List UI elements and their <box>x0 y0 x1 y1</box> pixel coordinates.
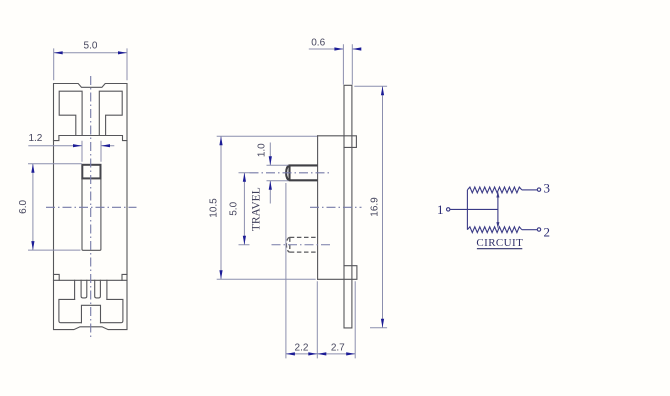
svg-text:5.0: 5.0 <box>84 41 98 52</box>
svg-text:CIRCUIT: CIRCUIT <box>476 237 523 249</box>
dimension 1.0 (pin diameter) <box>267 143 289 204</box>
terminal 1 node circle <box>447 208 450 211</box>
svg-text:1.2: 1.2 <box>28 133 42 144</box>
upper-right window cutout <box>99 91 122 135</box>
dimensions 2.2 / 2.7 (bottom) <box>286 183 355 358</box>
wire left bus <box>466 190 468 230</box>
svg-text:1.0: 1.0 <box>256 143 267 157</box>
wiper arrow up <box>496 191 499 198</box>
side body top block <box>318 136 357 148</box>
terminal 2 node circle <box>537 228 540 231</box>
svg-text:5.0: 5.0 <box>228 201 239 215</box>
dimension 10.5 (body height) <box>217 136 317 279</box>
side body left edge <box>317 136 319 279</box>
pin centerline <box>250 172 331 174</box>
svg-text:16.9: 16.9 <box>369 197 380 217</box>
phantom pin centerline <box>272 244 332 246</box>
slider slot <box>82 178 101 250</box>
side body bottom foot <box>318 266 357 280</box>
wiper arrow down <box>496 222 499 229</box>
comb slot left <box>81 280 87 298</box>
resistor R1 (top track) <box>467 187 521 193</box>
side body centerline <box>310 206 362 208</box>
svg-text:TRAVEL: TRAVEL <box>250 187 262 231</box>
svg-text:3: 3 <box>544 180 551 195</box>
dimension 1.2 (slot width) <box>28 141 114 162</box>
svg-text:10.5: 10.5 <box>208 198 219 218</box>
actuator pin (bold) <box>286 165 318 180</box>
bottom-right window <box>101 299 123 322</box>
svg-text:6.0: 6.0 <box>18 200 29 214</box>
terminal 3 node circle <box>537 188 540 191</box>
svg-text:2: 2 <box>544 224 551 239</box>
dimension 6.0 (slot length) <box>28 164 82 250</box>
comb slot right <box>95 280 101 298</box>
body outline front view <box>54 84 128 330</box>
dimension 0.6 (blade thickness) <box>309 44 361 84</box>
slider knob (bold) <box>82 165 100 179</box>
svg-text:1: 1 <box>437 202 444 217</box>
terminal comb teeth <box>75 280 107 299</box>
upper-left window cutout <box>59 91 82 135</box>
dimension 5.0 travel <box>239 173 250 245</box>
wire terminal 1 to wiper <box>450 208 498 210</box>
blade (moving pole) <box>344 85 352 328</box>
phantom pin (dashed, travel end position) <box>286 237 317 252</box>
svg-text:2.7: 2.7 <box>331 342 345 353</box>
lower step band <box>54 274 60 280</box>
svg-text:0.6: 0.6 <box>311 38 325 49</box>
dimension 16.9 (blade length) <box>354 86 387 328</box>
wiper arm <box>497 194 499 226</box>
svg-text:2.2: 2.2 <box>295 342 309 353</box>
horizontal centerline front view <box>46 206 137 208</box>
wire R2 to terminal 2 <box>522 229 538 231</box>
upper step band <box>54 136 128 141</box>
vertical centerline front view <box>90 76 92 339</box>
wire R1 to terminal 3 <box>522 189 538 191</box>
resistor R2 (bottom track) <box>467 227 521 233</box>
center pedestal <box>81 305 100 322</box>
CIRCUIT underline <box>477 248 522 250</box>
bottom-left window <box>59 299 82 322</box>
dimension 5.0 (top width) <box>54 48 127 80</box>
